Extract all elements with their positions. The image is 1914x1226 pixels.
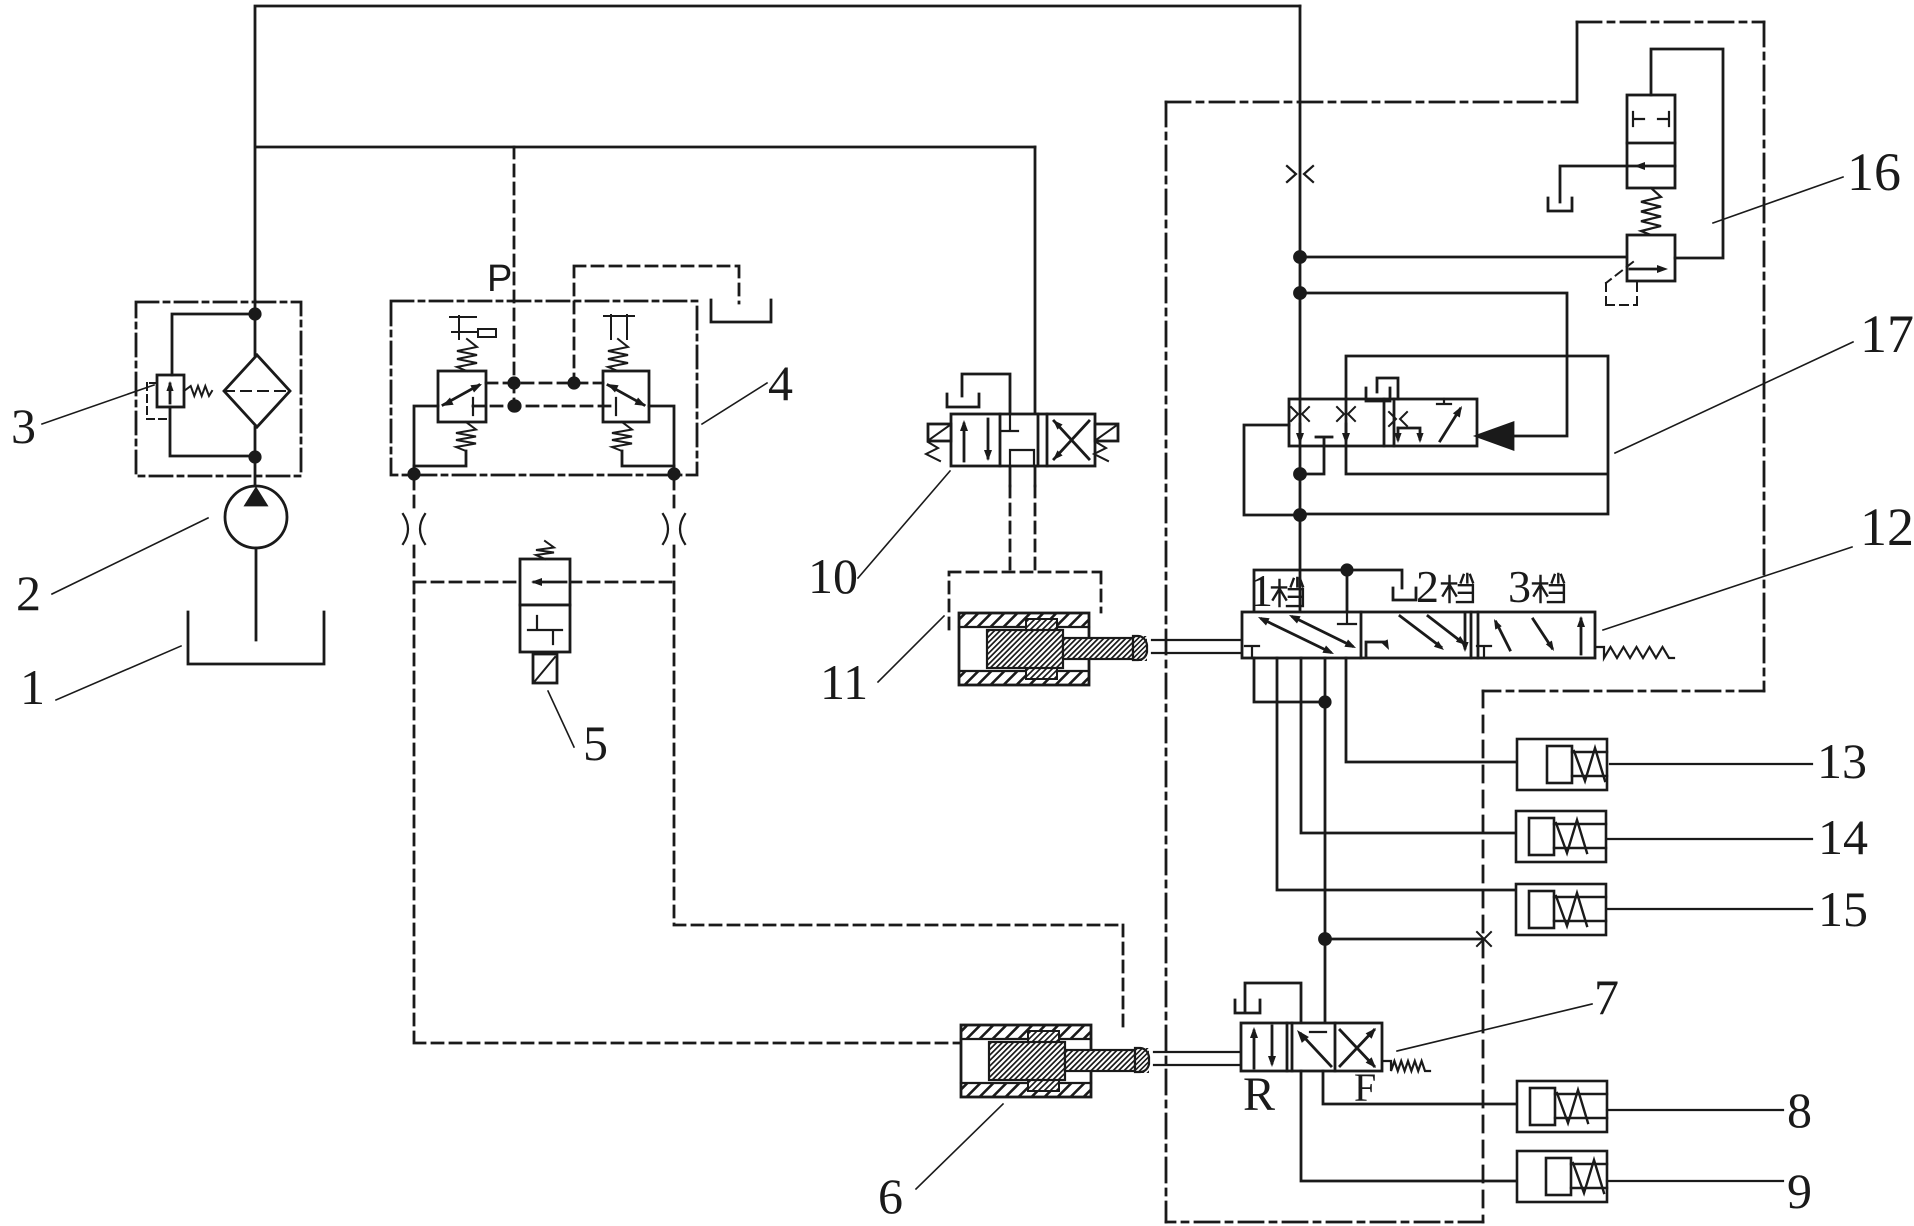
- orifice (right): [663, 514, 685, 544]
- svg-text:8: 8: [1787, 1082, 1812, 1138]
- wire + label 15: [1607, 908, 1812, 910]
- orifice on main riser: [1287, 166, 1313, 182]
- valve 5 (two position): [520, 541, 570, 652]
- reducing valve 4a (left): [438, 316, 496, 422]
- label 3dang: [1508, 561, 1564, 612]
- wire: left dashed branch down: [414, 478, 959, 1043]
- wire + label 14: [1607, 838, 1812, 840]
- svg-text:11: 11: [820, 654, 868, 710]
- label 1dang: [1250, 565, 1303, 616]
- drain above valve 17: [1366, 378, 1398, 401]
- label 3 leader: [42, 385, 154, 424]
- actuator 14 (gear 2 clutch): [1516, 811, 1606, 862]
- wire: valve 16 bypass loop: [1651, 49, 1723, 258]
- svg-text:1: 1: [20, 659, 45, 715]
- spring of valve 12: [1597, 647, 1674, 658]
- svg-text:14: 14: [1818, 809, 1868, 865]
- valve 16 (pressure control) body: [1627, 95, 1675, 188]
- svg-text:4: 4: [768, 355, 793, 411]
- wire: valve 10 outputs (dashed) to cylinder 11: [1010, 466, 1035, 572]
- pump 2: [225, 486, 287, 548]
- svg-text:1: 1: [1250, 565, 1273, 616]
- svg-text:P: P: [487, 258, 512, 300]
- svg-text:3: 3: [1508, 561, 1531, 612]
- svg-text:7: 7: [1594, 969, 1619, 1025]
- spring of valve 16: [1641, 188, 1661, 235]
- svg-text:13: 13: [1817, 733, 1867, 789]
- wire + label 8: [1607, 1109, 1783, 1111]
- svg-text:6: 6: [878, 1168, 903, 1224]
- reducing valve 4b (right): [603, 315, 649, 422]
- label 5 leader: [548, 691, 574, 747]
- wire: pump suction: [255, 548, 258, 640]
- relief valve (filter bypass): [157, 314, 255, 456]
- wire: valve 17 feedback loop (outer box): [1300, 356, 1608, 514]
- wire: right dashed branch down: [674, 478, 1123, 1026]
- wire: pilot line to drain (dashed): [569, 266, 739, 388]
- wire: feed to valve 10: [1034, 147, 1037, 414]
- solenoid left of valve 10: [926, 424, 951, 461]
- wire: to actuator 13: [1346, 658, 1517, 762]
- wire: pump outlet main supply (top loop): [255, 6, 1300, 301]
- valve 17 pilot check (black arrow): [1477, 423, 1513, 449]
- valve 10 (3-position solenoid valve): [951, 414, 1095, 466]
- valve 7 (forward/reverse valve): [1241, 1023, 1382, 1071]
- wire: filter inlet: [250, 301, 260, 355]
- wire: dashed gallery between reducing valves (lower): [473, 398, 616, 415]
- wire: valve 17 bottom T-port: [1300, 437, 1332, 474]
- wire: P pilot line (dashed vertical): [509, 147, 519, 411]
- valve 16 pilot line (dashed): [1606, 262, 1637, 305]
- wire: dashed gallery through valve 5: [414, 581, 674, 584]
- wire: main line to valve 7: [1320, 658, 1331, 1023]
- wire: R output to actuator 9: [1301, 1071, 1517, 1181]
- wire: F output to actuator 8: [1323, 1071, 1517, 1104]
- wire: left valve side port and spring return: [409, 406, 476, 479]
- actuator 15 (gear 3 clutch): [1516, 884, 1606, 935]
- actuator 13 (gear 1 clutch): [1517, 739, 1607, 790]
- wire + label 13: [1610, 763, 1812, 765]
- wire: to actuator 15: [1277, 658, 1516, 890]
- wire: right valve side port and spring return: [612, 406, 679, 479]
- wire: cylinder 11 push rod: [1152, 640, 1242, 653]
- svg-text:5: 5: [583, 715, 608, 771]
- svg-text:3: 3: [11, 398, 36, 454]
- svg-text:R: R: [1243, 1068, 1275, 1121]
- svg-text:17: 17: [1860, 304, 1914, 364]
- wire: dashed gallery between reducing valves (upper): [486, 382, 603, 385]
- cylinder 11 (shift piston): [952, 613, 1171, 685]
- orifice (left): [403, 514, 425, 544]
- wire: cylinder 6 push rod: [1154, 1052, 1242, 1065]
- filter unit 3 dash-dot enclosure: [136, 302, 301, 476]
- label 10 leader: [858, 471, 950, 578]
- svg-text:10: 10: [808, 548, 858, 604]
- drain of valve 16: [1548, 166, 1627, 211]
- drain bracket above valve 12: [1254, 565, 1416, 612]
- solenoid of valve 5: [533, 654, 557, 683]
- label 2dang: [1416, 561, 1473, 612]
- cylinder 11 dashed housing: [949, 572, 1101, 629]
- svg-text:16: 16: [1847, 142, 1901, 202]
- cylinder 6 (shift piston): [954, 1025, 1173, 1097]
- label 7 leader: [1397, 1004, 1592, 1051]
- solenoid right of valve 10: [1094, 424, 1118, 461]
- wire: filter outlet: [250, 427, 260, 487]
- wire + label 9: [1607, 1180, 1783, 1182]
- label 12 leader: [1603, 547, 1852, 630]
- svg-text:15: 15: [1818, 881, 1868, 937]
- valve 17 body: [1289, 399, 1477, 446]
- actuator 8 (forward clutch): [1517, 1081, 1607, 1132]
- svg-text:2: 2: [16, 565, 41, 621]
- label 16 leader: [1713, 177, 1843, 223]
- transmission boundary (dash-dot): [1166, 22, 1764, 1222]
- filter F1 (diamond): [224, 355, 290, 427]
- valve 16 lower element (back-pressure valve): [1627, 235, 1675, 281]
- relief valve pilot line (dashed): [147, 383, 170, 419]
- wire: cross link to boundary: [1325, 932, 1491, 946]
- wire: pilot branch to valve 17 right end: [1300, 293, 1567, 436]
- drain tank above valve block 4: [711, 300, 771, 322]
- svg-text:12: 12: [1860, 497, 1914, 557]
- label 4 leader: [702, 383, 767, 424]
- label 2 leader: [52, 518, 208, 594]
- wire: to actuator 14: [1301, 658, 1516, 833]
- valve 12 (gear selector 3-position): [1242, 612, 1595, 658]
- drain above valve 7: [1235, 983, 1301, 1023]
- wire: main pressure riser to transmission valves: [1295, 6, 1306, 612]
- wire: branch to valve 16: [1300, 256, 1627, 259]
- valve block 4 dash-dot enclosure: [391, 301, 697, 475]
- wire: gear valve port stubs: [1254, 658, 1330, 707]
- label 11 leader: [878, 616, 944, 682]
- label 17 leader: [1615, 342, 1853, 453]
- svg-text:2: 2: [1416, 561, 1439, 612]
- label 1 leader: [56, 646, 181, 700]
- spring of valve 7: [1384, 1061, 1430, 1071]
- wire: valve 17 left port loop: [1244, 425, 1300, 515]
- actuator 9 (reverse clutch): [1517, 1151, 1607, 1202]
- label 6 leader: [916, 1104, 1003, 1189]
- drain above valve 10: [947, 374, 1010, 414]
- svg-text:9: 9: [1787, 1163, 1812, 1219]
- tank 1: [188, 612, 324, 664]
